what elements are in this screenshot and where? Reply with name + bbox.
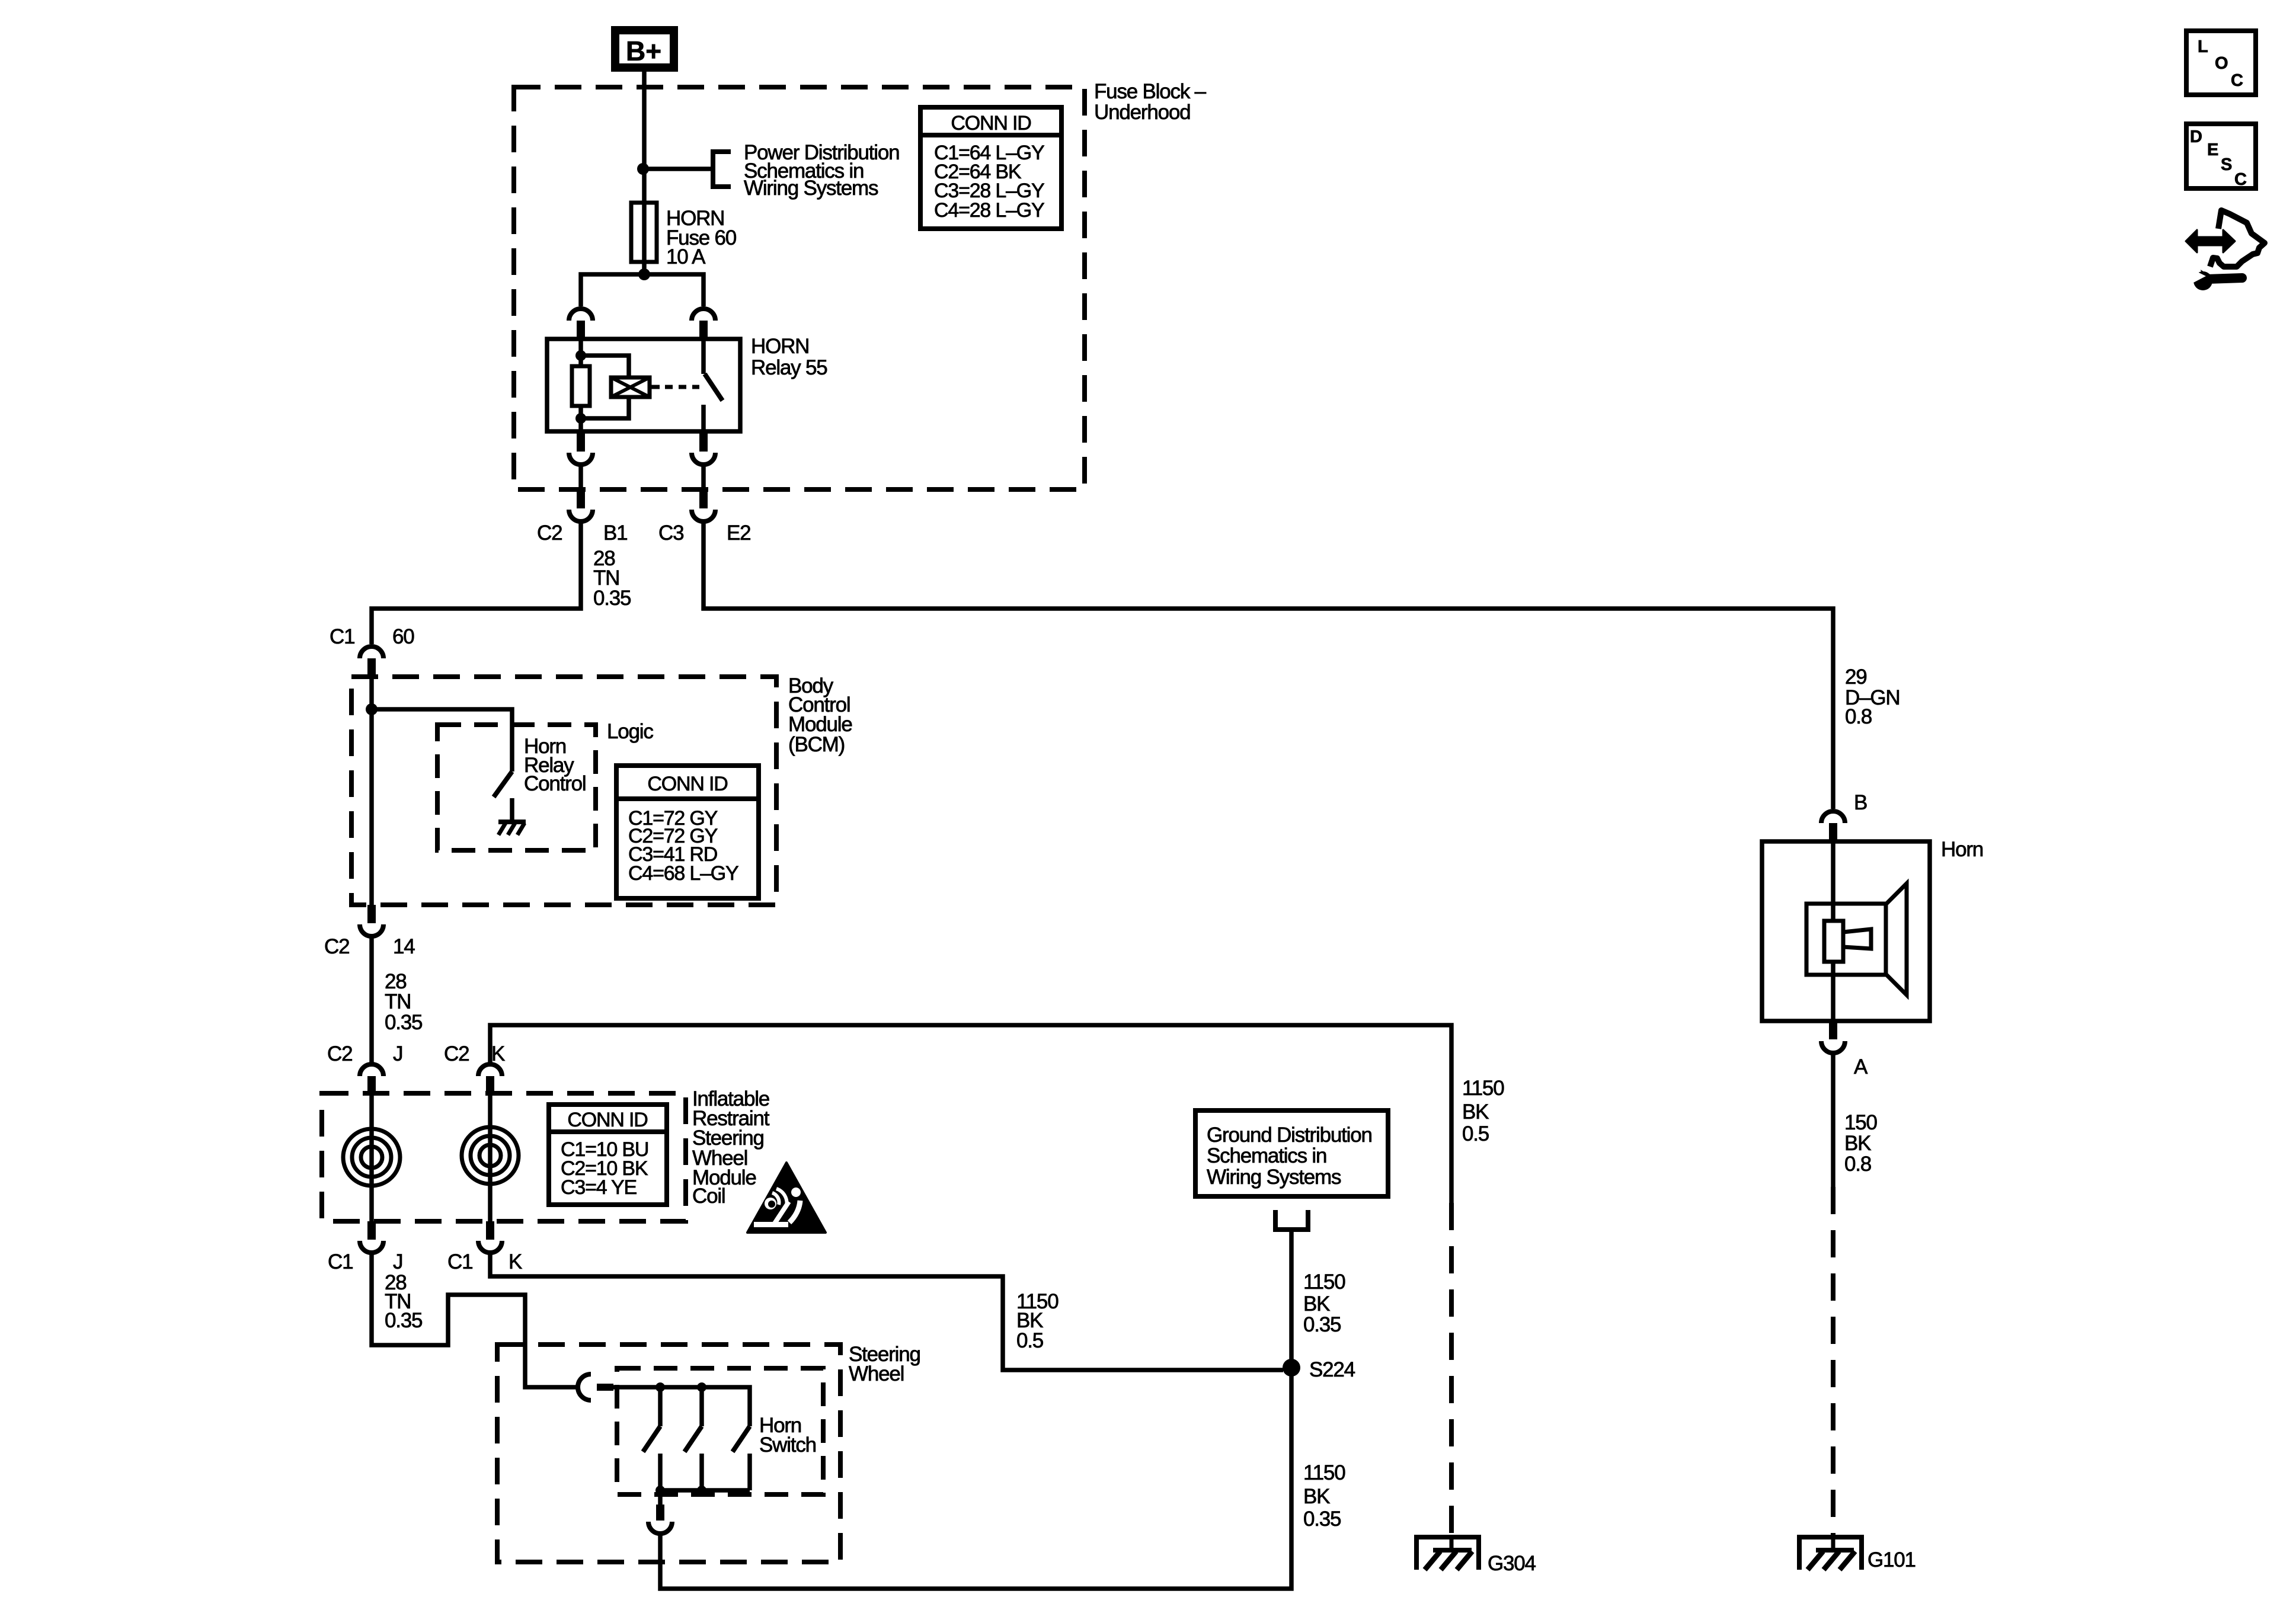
BCM dashed box (351, 677, 776, 905)
svg-text:O: O (2215, 54, 2228, 73)
svg-text:E2: E2 (727, 521, 750, 545)
svg-text:BK: BK (1462, 1100, 1489, 1124)
power terminal B+ (615, 30, 674, 68)
svg-text:C3=4 YE: C3=4 YE (561, 1176, 637, 1199)
off-page bracket ground distribution (1273, 1210, 1310, 1230)
svg-text:150: 150 (1844, 1111, 1878, 1134)
connector relay pin top right (contact feed) (692, 309, 715, 340)
svg-text:0.5: 0.5 (1016, 1329, 1043, 1352)
svg-text:BK: BK (1303, 1292, 1330, 1315)
connector relay pin top left (coil feed) (569, 309, 593, 340)
wire label 1150 BK 0.35 (1303, 1270, 1345, 1336)
resistor in relay (572, 366, 590, 406)
connector horn pin B (1821, 811, 1845, 841)
wire fuse to relay split (642, 262, 647, 274)
node relay coil top (575, 350, 586, 361)
svg-text:Ground Distribution: Ground Distribution (1207, 1124, 1372, 1147)
horn switch dashed box (617, 1368, 823, 1494)
svg-text:C3: C3 (658, 521, 683, 545)
label Body Control Module (BCM) (788, 674, 852, 756)
connector horn switch ground exit (648, 1505, 672, 1534)
svg-text:0.35: 0.35 (593, 587, 631, 610)
icon LOC box (2186, 31, 2256, 95)
splice S224 (1283, 1359, 1300, 1377)
svg-text:Coil: Coil (692, 1185, 725, 1208)
coil module dashed box (322, 1093, 686, 1221)
wire label 1150 BK 0.5 (1016, 1290, 1059, 1352)
wire coil K branch to ground distribution (490, 1025, 1451, 1203)
svg-text:10 A: 10 A (666, 245, 706, 268)
svg-text:A: A (1854, 1055, 1868, 1078)
wire E2 to horn feed (703, 521, 1833, 809)
wire relay right pin to block edge (701, 466, 706, 491)
svg-text:1150: 1150 (1462, 1077, 1504, 1100)
svg-text:C2: C2 (537, 521, 562, 545)
wire through BCM (369, 677, 374, 905)
svg-text:K: K (491, 1042, 505, 1065)
svg-text:Underhood: Underhood (1094, 101, 1190, 124)
fuse block underhood dashed box (514, 87, 1085, 489)
svg-text:S: S (2221, 155, 2232, 174)
relay switch contact (703, 339, 722, 431)
svg-text:CONN ID: CONN ID (567, 1109, 647, 1131)
node BCM branch (366, 703, 378, 715)
svg-text:(BCM): (BCM) (788, 733, 845, 756)
wire horn switch to S224 bus (660, 1368, 1291, 1589)
horn component box (1762, 841, 1930, 1021)
node splice below B+ (637, 163, 649, 175)
dashed wire to G101 (1831, 1187, 1835, 1535)
wire C1-K to S224 (490, 1253, 1283, 1370)
fuse HORN Fuse 60 10A (631, 203, 657, 262)
table CONN ID BCM (616, 766, 759, 898)
wire to horn switch contacts (613, 1387, 750, 1426)
wire ground distribution to S224 (1289, 1230, 1294, 1368)
svg-text:B+: B+ (626, 36, 661, 66)
svg-text:29: 29 (1845, 665, 1867, 689)
svg-text:Horn: Horn (1941, 838, 1983, 861)
connector C1 pin 60 at BCM (360, 646, 383, 677)
wire to horn relay control switch (372, 709, 512, 772)
svg-text:TN: TN (385, 990, 411, 1013)
svg-text:0.8: 0.8 (1844, 1153, 1871, 1176)
label Horn Switch (759, 1414, 816, 1457)
node horn switch top 1 (655, 1382, 665, 1392)
svg-text:Fuse Block –: Fuse Block – (1094, 80, 1207, 103)
svg-text:1150: 1150 (1303, 1270, 1345, 1294)
svg-text:S224: S224 (1309, 1358, 1355, 1381)
wire label 28 TN 0.35 (385, 970, 422, 1034)
svg-text:0.35: 0.35 (385, 1011, 422, 1034)
label Fuse Block Underhood (1094, 80, 1207, 124)
svg-text:C2: C2 (324, 935, 349, 958)
svg-text:Relay 55: Relay 55 (751, 356, 827, 379)
dashed wire to G304 (1449, 1203, 1454, 1535)
svg-text:B1: B1 (603, 521, 627, 545)
relay coil solenoid symbol (611, 377, 650, 397)
node horn switch bottom 2 (697, 1486, 706, 1495)
wire branch to power distribution reference (643, 167, 711, 171)
svg-text:C1: C1 (328, 1250, 353, 1273)
svg-text:HORN: HORN (751, 335, 809, 358)
svg-text:E: E (2207, 140, 2218, 159)
svg-text:CONN ID: CONN ID (951, 112, 1031, 135)
wire relay left pin to block edge (578, 466, 583, 491)
wire horn to ground solid part (1831, 1053, 1835, 1187)
node horn switch top 2 (697, 1382, 706, 1392)
wire through horn (1831, 841, 1835, 1021)
svg-text:Wheel: Wheel (849, 1362, 904, 1385)
node splice above relay (638, 268, 650, 280)
wire label 1150 BK 0.35 (1303, 1461, 1345, 1531)
label HORN Fuse 60 10 A (666, 207, 737, 268)
svg-text:J: J (393, 1250, 402, 1273)
connector C2 pin J coil (360, 1064, 383, 1093)
svg-text:BK: BK (1303, 1485, 1330, 1508)
node horn switch bottom 1 (655, 1486, 665, 1495)
svg-text:C4=28 L–GY: C4=28 L–GY (934, 199, 1044, 222)
connector C3 pin E2 at fuse block exit (692, 489, 715, 521)
relay coil branch wires (581, 339, 629, 431)
label Power Distribution Schematics in Wiring Systems (744, 141, 899, 200)
connector relay pin bottom right (692, 431, 715, 465)
svg-text:C1: C1 (330, 625, 354, 648)
svg-text:C2: C2 (327, 1042, 352, 1065)
wire label 150 BK 0.8 (1844, 1111, 1878, 1176)
svg-text:BK: BK (1844, 1132, 1871, 1155)
svg-text:0.35: 0.35 (1303, 1313, 1341, 1336)
svg-text:Wiring Systems: Wiring Systems (744, 177, 878, 200)
svg-text:0.35: 0.35 (385, 1309, 422, 1332)
ground G101 (1797, 1535, 1864, 1570)
node relay coil bottom (575, 413, 586, 424)
horn speaker symbol (1806, 884, 1907, 995)
warning triangle airbag (747, 1163, 826, 1233)
svg-text:14: 14 (393, 935, 415, 958)
svg-text:C1: C1 (447, 1250, 472, 1273)
svg-text:L: L (2198, 37, 2208, 56)
svg-text:Logic: Logic (607, 720, 653, 743)
svg-text:K: K (509, 1250, 522, 1273)
off-page bracket power distribution (713, 152, 731, 187)
label HORN Relay 55 (751, 335, 827, 379)
wire B1 to BCM C1 (372, 521, 581, 644)
label Inflatable Restraint Steering Wheel Module Coil (692, 1087, 770, 1208)
wire C2-14 down (369, 936, 374, 1062)
svg-text:C2: C2 (444, 1042, 469, 1065)
connector C1 pin K coil exit (478, 1221, 502, 1253)
svg-text:B: B (1854, 791, 1867, 814)
svg-text:CONN ID: CONN ID (647, 773, 727, 795)
svg-text:0.5: 0.5 (1462, 1122, 1489, 1145)
svg-text:C: C (2231, 71, 2243, 90)
horn switch contact 2 (685, 1387, 702, 1490)
ground G304 (1414, 1535, 1481, 1570)
svg-text:G304: G304 (1488, 1552, 1536, 1575)
svg-text:Wiring Systems: Wiring Systems (1207, 1166, 1341, 1189)
clockspring coil J (343, 1129, 400, 1186)
svg-text:Control: Control (524, 772, 586, 795)
svg-text:G101: G101 (1868, 1548, 1916, 1571)
label Horn Relay Control (524, 735, 586, 795)
connector C2 pin K coil (478, 1064, 502, 1093)
horn switch bottom bus (660, 1488, 750, 1493)
table CONN ID coil (549, 1105, 667, 1205)
svg-text:60: 60 (392, 625, 414, 648)
connector C2 pin 14 at BCM exit (360, 905, 383, 936)
svg-text:D: D (2190, 127, 2202, 146)
svg-text:0.35: 0.35 (1303, 1507, 1341, 1531)
icon vehicle with arrow and wrench (2186, 210, 2265, 290)
wire label 1150 BK 0.5 (1462, 1077, 1504, 1145)
table CONN ID fuse block (920, 107, 1061, 229)
dashed actuation link (650, 385, 699, 389)
svg-text:C4=68 L–GY: C4=68 L–GY (628, 862, 738, 885)
connector C1 pin J coil exit (360, 1221, 383, 1253)
svg-text:C: C (2234, 170, 2247, 189)
icon DESC box (2186, 124, 2256, 189)
connector horn switch feed (578, 1374, 613, 1400)
connector horn pin A (1821, 1021, 1845, 1053)
logic dashed box (437, 725, 596, 850)
wire B+ to fuse (642, 72, 647, 203)
wire through coil K (488, 1093, 493, 1221)
wire label 28 TN 0.35 circuit (593, 547, 631, 610)
horn relay control switch blade (494, 772, 512, 797)
steering wheel dashed box (497, 1345, 840, 1562)
switch lower contact stub (510, 798, 514, 822)
relay K55 box (547, 339, 740, 431)
svg-text:1150: 1150 (1303, 1461, 1345, 1484)
wire C1-J zigzag to steering wheel (372, 1253, 577, 1387)
svg-text:Schematics in: Schematics in (1207, 1144, 1326, 1167)
connector C2 pin B1 at fuse block exit (569, 489, 593, 521)
svg-text:0.8: 0.8 (1845, 705, 1872, 728)
label 29 D-GN 0.8 (1845, 665, 1900, 728)
connector relay pin bottom left (569, 431, 593, 465)
clockspring coil K (462, 1127, 519, 1184)
label Steering Wheel (849, 1343, 920, 1385)
svg-text:J: J (393, 1042, 402, 1065)
wire label 28 TN 0.35 (385, 1271, 422, 1332)
horn switch contact 3 (733, 1426, 750, 1490)
wire horn switch exit (658, 1490, 663, 1505)
logic internal ground (498, 822, 526, 835)
svg-text:Switch: Switch (759, 1433, 816, 1457)
ground distribution reference box (1195, 1110, 1388, 1196)
wire through coil J (369, 1093, 374, 1221)
horn switch contact 1 (643, 1387, 660, 1490)
wire relay feed tee (581, 274, 703, 306)
